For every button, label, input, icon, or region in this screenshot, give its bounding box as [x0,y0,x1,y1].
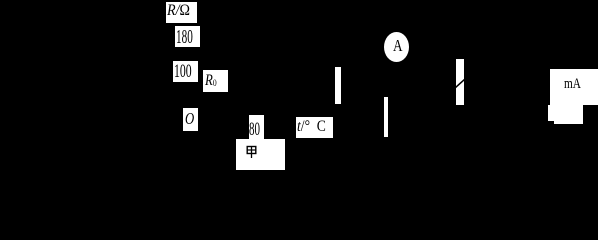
node R/Ω axis label [166,2,198,23]
wire mask bar 2 (battery gap) [384,97,388,137]
milliammeter body mask B [554,105,583,124]
node t/°C axis label [296,117,333,138]
node figure label 甲 box [236,139,285,170]
ammeter A [384,32,409,63]
milliammeter body mask A [548,105,583,121]
node 180 tick label [175,26,199,47]
switch S lever [453,76,467,90]
node 甲 glyph [244,143,260,161]
resistor R0 label [203,70,228,92]
milliammeter mA label box [550,69,598,105]
switch S: white gap bar [456,59,463,105]
wire mask bar 1 (battery gap) [335,67,340,105]
node 80 tick label [249,115,264,139]
node 100 tick label [173,61,199,82]
node origin O [183,108,198,131]
